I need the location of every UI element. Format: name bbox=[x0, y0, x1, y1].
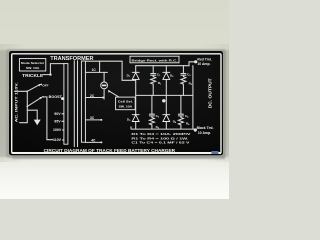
svg-text:SW. 10A: SW. 10A bbox=[119, 105, 133, 109]
wire bridge bottom rail bbox=[131, 127, 194, 129]
svg-text:10 Amp.: 10 Amp. bbox=[198, 131, 211, 135]
diode D1 bbox=[127, 72, 140, 79]
svg-text:C1 To C4 = 0.1 MF / 63 V: C1 To C4 = 0.1 MF / 63 V bbox=[131, 141, 189, 145]
resistor R2 bbox=[149, 117, 159, 129]
transformer T1 core bbox=[74, 61, 77, 147]
blue mark bbox=[211, 151, 218, 154]
panel frame border bbox=[12, 54, 221, 153]
svg-text:CIRCUIT DIAGRAM OF TRACK FEED: CIRCUIT DIAGRAM OF TRACK FEED BATTERY CH… bbox=[44, 148, 176, 153]
node 4C tap bbox=[85, 139, 102, 144]
svg-text:Black Tml.: Black Tml. bbox=[197, 126, 214, 130]
node 1C tap bbox=[85, 61, 107, 72]
resistor R3 bbox=[181, 77, 193, 96]
switch gang link bbox=[26, 91, 28, 106]
resistor R1 bbox=[151, 77, 162, 96]
transformer T1 primary winding bbox=[64, 64, 68, 145]
diode D2 bbox=[163, 72, 174, 79]
bridge rectifier label box bbox=[130, 56, 179, 63]
wire bridge top rail bbox=[136, 65, 189, 67]
label Red Tml. 10 Amp. bbox=[197, 57, 211, 66]
panel drop shadow bbox=[0, 49, 231, 159]
wire bridge middle rail bbox=[136, 94, 193, 96]
capacitor C3 bbox=[181, 66, 191, 77]
capacitor C2 bbox=[149, 95, 159, 118]
svg-text:DC. OUTPUT: DC. OUTPUT bbox=[207, 78, 213, 108]
svg-text:Bridge Rect. with R.C.: Bridge Rect. with R.C. bbox=[132, 58, 178, 62]
node 2C tap bbox=[85, 94, 104, 98]
label 110V tap bbox=[53, 138, 64, 142]
wire BOOST contact to 110V tap rail bbox=[43, 97, 53, 140]
svg-text:TRICKLE: TRICKLE bbox=[22, 73, 43, 78]
cell selector switch SW2 label box bbox=[116, 97, 136, 110]
capacitor C1 bbox=[151, 66, 161, 77]
mode selector switch SW1 label box bbox=[19, 59, 45, 71]
label Black Tml. 10 Amp. bbox=[197, 126, 214, 135]
wire secondary top into bridge AC node A bbox=[122, 61, 136, 80]
cell selector wiper contact bbox=[101, 72, 108, 99]
svg-text:OFF: OFF bbox=[42, 84, 48, 88]
transformer T1 secondary winding bbox=[81, 61, 85, 142]
black output terminal bbox=[194, 128, 197, 131]
svg-text:Cell Sel.: Cell Sel. bbox=[118, 99, 133, 103]
diode D3 bbox=[127, 115, 139, 122]
label 100V tap bbox=[53, 128, 64, 132]
diode D4 bbox=[163, 115, 177, 124]
screw near BOOST bbox=[61, 97, 64, 100]
wire TRICKLE contact to transformer primary top bbox=[43, 64, 64, 76]
svg-text:SW. 10A: SW. 10A bbox=[26, 66, 40, 70]
svg-text:Red Tml.: Red Tml. bbox=[197, 57, 211, 61]
resistor R4 bbox=[178, 117, 190, 129]
svg-text:AC. INPUT 110V.: AC. INPUT 110V. bbox=[13, 82, 18, 122]
svg-text:1C: 1C bbox=[92, 68, 97, 72]
label 95V tap bbox=[54, 119, 64, 123]
ground arrow bbox=[27, 110, 40, 125]
wire bridge right rail bbox=[192, 66, 194, 129]
wire AC line 2 bbox=[20, 106, 28, 122]
svg-text:BOOST: BOOST bbox=[49, 95, 63, 99]
svg-text:Mode Selector: Mode Selector bbox=[21, 61, 45, 65]
wire to red terminal bbox=[189, 62, 194, 66]
svg-text:95V: 95V bbox=[54, 119, 61, 123]
svg-text:100V: 100V bbox=[53, 128, 62, 132]
svg-text:90V: 90V bbox=[54, 112, 61, 116]
svg-text:110V: 110V bbox=[53, 138, 62, 142]
svg-text:D1 To D4 = 10A. 200PIV: D1 To D4 = 10A. 200PIV bbox=[131, 132, 190, 136]
panel face bbox=[9, 51, 223, 155]
svg-text:10 Amp.: 10 Amp. bbox=[197, 62, 210, 66]
red output terminal bbox=[194, 60, 197, 63]
switch pole 1 (lever to OFF) bbox=[26, 84, 42, 93]
wire bridge right column bbox=[165, 66, 167, 129]
label 90V tap bbox=[54, 112, 64, 116]
switch pole 2 (lever to BOOST) bbox=[26, 96, 43, 107]
screw center bbox=[162, 99, 165, 102]
wire bridge left column bbox=[135, 66, 137, 129]
wire secondary top to bridge bbox=[85, 60, 122, 62]
node 3C tap bbox=[85, 116, 102, 121]
svg-text:3C: 3C bbox=[90, 116, 95, 120]
arrow cell selector to wiper bbox=[108, 90, 119, 97]
wire AC line 1 bbox=[15, 90, 28, 92]
capacitor C4 bbox=[178, 95, 189, 118]
